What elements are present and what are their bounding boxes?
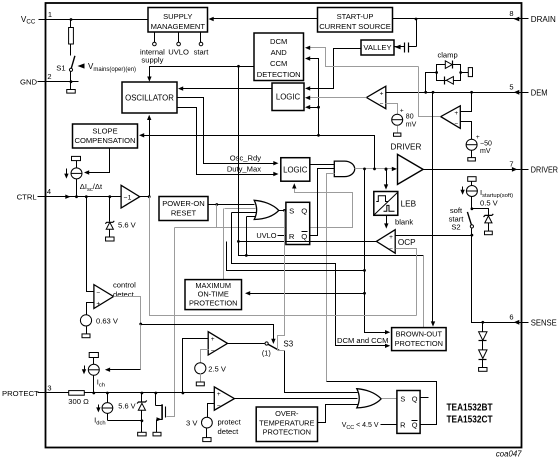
wire control detect plus to 0.63 V (87, 303, 94, 315)
svg-text:5: 5 (509, 83, 513, 92)
wire demag comparator output (419, 67, 441, 117)
wire latch nQ feedback to AND bus (327, 382, 437, 425)
block BROWN-OUT PROTECTION (392, 328, 447, 351)
wire OR input 3 (232, 212, 257, 214)
wire CTRL level bus (150, 197, 417, 316)
node control detect junction (139, 323, 142, 326)
comparator OCP U8 (376, 230, 395, 254)
svg-text:DEM: DEM (531, 88, 548, 97)
wire comparator minus to 2.5 V (201, 350, 209, 363)
svg-text:S1: S1 (56, 64, 65, 73)
svg-text:TEA1532CT: TEA1532CT (447, 414, 493, 425)
svg-text:MANAGEMENT: MANAGEMENT (151, 22, 206, 31)
node POR output junction (215, 203, 218, 206)
gate AND U4 (334, 161, 354, 177)
svg-text:0.63 V: 0.63 V (96, 316, 119, 325)
svg-text:Duty_Max: Duty_Max (227, 165, 261, 174)
svg-text:GND: GND (20, 78, 38, 87)
svg-text:S2: S2 (451, 223, 460, 232)
diode D2 clamp bottom (446, 77, 453, 85)
svg-text:5.6 V: 5.6 V (118, 220, 137, 229)
block VALLEY (361, 40, 394, 55)
capacitor C1 at DRAIN (395, 46, 405, 48)
svg-text:−1: −1 (124, 195, 132, 202)
svg-text:LEB: LEB (401, 199, 417, 208)
ground below GND node (70, 82, 72, 90)
wire OR output to latch S (382, 398, 397, 400)
wire OR input 4 vertical (246, 217, 248, 256)
node CTRL control-detect junction (85, 195, 88, 198)
svg-text:−: − (211, 348, 215, 355)
block OSCILLATOR (122, 82, 177, 113)
node DEM comparator junction (470, 91, 473, 94)
wire comparator output to S3 (228, 343, 265, 345)
node driver input LEB junction (385, 168, 388, 171)
wire Duty_Max from oscillator (177, 108, 277, 175)
wire DEM down to brown-out (432, 93, 434, 324)
svg-text:ON-TIME: ON-TIME (198, 289, 229, 298)
wire OR output to flip-flop S (279, 210, 286, 212)
wire -1 output to oscillator feedback node (140, 196, 150, 198)
node DEM brown-out junction (432, 91, 435, 94)
svg-text:LOGIC: LOGIC (276, 93, 301, 102)
svg-text:80: 80 (406, 113, 414, 120)
svg-text:S3: S3 (283, 339, 293, 348)
wire DEM line (386, 92, 522, 94)
wire demag comparator plus input from DEM (461, 93, 472, 112)
svg-text:DCM and CCM: DCM and CCM (337, 336, 388, 345)
node DCM-AND junction (363, 269, 366, 272)
current source Idch (107, 393, 109, 403)
svg-text:SUPPLY: SUPPLY (163, 12, 192, 21)
svg-text:SLOPE: SLOPE (92, 126, 117, 135)
wire LEB input from driver node (386, 170, 388, 185)
node soft start junction (471, 207, 474, 210)
svg-text:(1): (1) (262, 348, 271, 357)
flip-flop latch U13 (397, 391, 420, 434)
svg-text:PROTECT: PROTECT (2, 389, 39, 398)
wire protect comparator output to OR (235, 398, 358, 400)
voltage source 0.63 V (80, 315, 91, 326)
block DCM AND CCM DETECTION (254, 33, 304, 81)
wire VALLEY output to LOGIC (309, 49, 361, 89)
svg-text:−: − (96, 289, 100, 296)
svg-text:+: + (217, 391, 221, 398)
wire DCM detection input 2 (309, 59, 319, 136)
wire LOGIC to OSCILLATOR with arrow (182, 88, 273, 90)
comparator protect detect U11 (214, 387, 234, 410)
svg-text:7: 7 (509, 159, 513, 168)
svg-text:+: + (211, 336, 215, 343)
node PROTECT Idch junction (106, 392, 109, 395)
wire demag comparator minus input (461, 122, 472, 140)
wire DCM and CCM to brown-out (232, 213, 389, 346)
node DEM clamp junction (424, 91, 427, 94)
svg-text:+: + (389, 234, 393, 241)
ground below PROTECT zener (138, 432, 147, 436)
svg-text:RESET: RESET (171, 209, 197, 218)
svg-text:DRAIN: DRAIN (531, 15, 556, 24)
svg-text:Q: Q (412, 421, 418, 430)
comparator threshold U10 (208, 332, 227, 355)
wire capacitor to DRAIN rail (416, 19, 418, 47)
svg-text:DRIVER: DRIVER (391, 142, 422, 151)
svg-text:CURRENT SOURCE: CURRENT SOURCE (319, 22, 391, 31)
block START-UP CURRENT SOURCE (318, 8, 393, 33)
svg-text:−: − (380, 101, 384, 108)
transistor Q1 protect pull-down (155, 393, 157, 406)
wire S3 bus up to latch (278, 211, 285, 351)
svg-text:−: − (389, 246, 393, 253)
svg-text:300 Ω: 300 Ω (68, 397, 89, 406)
voltage source 2.5 V (195, 363, 206, 374)
node OCP DCM rail junction (237, 240, 240, 243)
node on driver sync line (317, 134, 320, 137)
svg-text:DRIVER: DRIVER (531, 166, 558, 175)
wire LEB to OCP blank (386, 216, 388, 224)
gate OR U12 (357, 389, 381, 408)
zener diode 5.6 V at CTRL (109, 197, 111, 222)
svg-text:+: + (454, 110, 458, 117)
svg-text:OCP: OCP (398, 238, 416, 247)
node PROTECT comparator junction (182, 392, 185, 395)
node SENSE diode junction (481, 321, 484, 324)
svg-text:2.5 V: 2.5 V (208, 364, 227, 373)
node clamp right (459, 71, 462, 74)
svg-text:UVLO: UVLO (168, 48, 189, 57)
comparator valley detect U2 (367, 86, 386, 109)
driver amplifier U7 (398, 154, 424, 184)
svg-text:CTRL: CTRL (17, 193, 38, 202)
resistor R1 on VCC (70, 20, 72, 28)
svg-text:SENSE: SENSE (531, 318, 557, 327)
wire protect comparator minus to 3 V (208, 404, 215, 418)
wire soft-start node to SENSE (472, 236, 522, 323)
svg-text:DCM: DCM (270, 37, 287, 46)
svg-text:−50: −50 (480, 140, 492, 147)
svg-text:3 V: 3 V (186, 419, 198, 428)
node PROTECT Ich junction (92, 392, 95, 395)
wire CTRL up to oscillator (149, 120, 151, 197)
block LEB (374, 192, 398, 216)
wire PROTECT to comparator plus (183, 339, 209, 393)
switch S2 soft start (467, 212, 471, 225)
svg-text:START-UP: START-UP (337, 12, 374, 21)
wire CTRL to control detect minus (87, 197, 94, 292)
svg-text:+: + (400, 108, 404, 115)
wire OR input 2 (225, 208, 256, 210)
ground below -50 mV source (471, 151, 473, 158)
wire latch Q stub (421, 397, 429, 399)
svg-text:CCM: CCM (270, 59, 287, 68)
svg-text:−: − (217, 403, 221, 410)
svg-text:S: S (289, 206, 294, 215)
svg-text:mV: mV (406, 121, 417, 128)
node GND junction (70, 80, 73, 83)
svg-text:4: 4 (47, 187, 51, 196)
pin 8 DRAIN (522, 18, 529, 20)
wire driver sync into slope compensation (142, 136, 375, 169)
wire CTRL line with direction arrow (46, 196, 122, 198)
svg-text:3: 3 (47, 383, 51, 392)
pin 2 GND (38, 81, 46, 83)
node LOGIC input 3 junction (317, 106, 320, 109)
wire DCM rail down to OCP line (238, 67, 240, 242)
svg-text:VALLEY: VALLEY (363, 43, 391, 52)
zener diode 0.5 V (472, 209, 489, 216)
wire control detect output (114, 297, 141, 325)
pin 6 SENSE (522, 322, 529, 324)
pin 4 CTRL (38, 196, 46, 198)
svg-text:−: − (454, 121, 458, 128)
node PROTECT zener junction (141, 392, 144, 395)
switch S3 (265, 342, 268, 345)
node CTRL zener junction (108, 195, 111, 198)
node AND output brown-out branch (363, 168, 366, 171)
svg-text:5.6 V: 5.6 V (118, 401, 135, 410)
terminal UVLO (178, 33, 180, 43)
node max-on-time junction (363, 292, 366, 295)
pin 3 PROTECT (38, 392, 46, 394)
svg-text:PROTECTION: PROTECTION (189, 298, 237, 307)
wire flip-flop nQ to AND input (310, 169, 335, 236)
block OVER-TEMPERATURE PROTECTION (256, 407, 317, 442)
wire latch bus to AND node (227, 242, 365, 271)
svg-text:TEA1532BT: TEA1532BT (447, 403, 493, 414)
svg-text:1: 1 (48, 10, 52, 19)
block LOGIC (272, 83, 304, 111)
voltage source 3 V (202, 417, 213, 428)
svg-text:0.5 V: 0.5 V (480, 199, 499, 208)
svg-text:AND: AND (271, 48, 288, 57)
comparator demagnetization U3 (441, 106, 461, 129)
pin 7 DRIVER (522, 169, 529, 171)
wire to LOGIC input 3 (309, 107, 319, 109)
svg-text:blank: blank (395, 217, 413, 226)
wire START-UP to SUPPLY MANAGEMENT with arrow (211, 18, 318, 20)
wire Idch to zener rail (108, 420, 142, 422)
pin 1 VCC (39, 19, 46, 21)
svg-text:OSCILLATOR: OSCILLATOR (125, 93, 174, 102)
block MAXIMUM ON-TIME PROTECTION (185, 280, 242, 310)
svg-text:Q: Q (412, 395, 418, 404)
wire to maximum on-time protection (247, 293, 365, 295)
svg-text:DETECTION: DETECTION (257, 70, 301, 79)
current source dIsc/dt (72, 156, 81, 160)
svg-text:R: R (400, 421, 405, 430)
ground below SENSE diodes (479, 368, 487, 372)
svg-text:+: + (380, 91, 384, 98)
zener diode 5.6 V at PROTECT (141, 393, 143, 403)
wire valley comparator minus input to 80 mV source (386, 104, 398, 115)
wire AND output to driver (355, 168, 395, 170)
current source Istartup(soft) (468, 177, 476, 182)
voltage source 80 mV (392, 114, 403, 125)
node S2 OCP junction (471, 234, 474, 237)
node CTRL dIsc junction (75, 195, 78, 198)
block SLOPE COMPENSATION (73, 124, 138, 148)
wire OCP output to OR and brown-out (239, 242, 424, 256)
label Vmains(oper)(en) with arrow (78, 63, 85, 68)
diode D1 clamp top (445, 61, 452, 69)
wire GND pin to S1 node (46, 81, 79, 83)
wire control detect to Ich (140, 325, 142, 370)
node S3 bus junction (283, 209, 286, 212)
wire valley comparator output to LOGIC (309, 97, 367, 99)
wire VCC rail to SUPPLY MANAGEMENT (46, 19, 149, 21)
svg-text:clamp: clamp (437, 51, 457, 60)
terminal start (200, 33, 202, 43)
svg-text:TEMPERATURE: TEMPERATURE (259, 418, 314, 427)
svg-text:Q: Q (301, 232, 307, 241)
diode D3 at SENSE (482, 323, 484, 332)
wire S3 bus stub (278, 350, 285, 352)
wire driver output to pin (424, 169, 521, 171)
wire POR to LOGIC bottom (217, 187, 353, 228)
node -1 output junction (148, 195, 151, 198)
svg-text:S: S (400, 395, 405, 404)
svg-text:COMPENSATION: COMPENSATION (74, 136, 135, 145)
flip-flop latch U6 (286, 202, 310, 244)
node zener rail junction (141, 419, 144, 422)
wire AND output down to brown-out (365, 169, 389, 333)
wire OR input 4 (247, 216, 256, 218)
amplifier -1 (121, 185, 140, 208)
pin 5 DEM (522, 92, 529, 94)
ground below transistor (153, 432, 161, 436)
wire POWER-ON RESET output (209, 204, 255, 206)
node PROTECT transistor junction (154, 392, 157, 395)
block POWER-ON RESET (159, 197, 208, 221)
wire comparator output to DCM detection arrow (308, 48, 419, 67)
wire OCP plus input to sense net (396, 235, 472, 237)
svg-text:PROTECTION: PROTECTION (263, 428, 311, 437)
current source Ich (89, 353, 98, 358)
voltage source -50 mV (466, 139, 477, 150)
node clamp left (435, 71, 438, 74)
svg-text:mV: mV (480, 148, 491, 155)
gate OR U5 (254, 200, 279, 219)
wire POR to protect transistor gate (175, 205, 217, 228)
wire OCP minus input to CTRL level (396, 249, 417, 316)
node DCM rail junction (237, 65, 240, 68)
svg-text:Q: Q (301, 206, 307, 215)
wire Osc_Rdy from oscillator (177, 98, 277, 164)
wire S3 to OR gate bus (285, 351, 358, 393)
svg-text:OVER-: OVER- (275, 409, 299, 418)
svg-text:detect: detect (218, 427, 240, 436)
terminal internal supply (154, 33, 156, 43)
svg-text:PROTECTION: PROTECTION (395, 339, 443, 348)
node VCC-resistor junction (70, 18, 73, 21)
wire gray bus to AND input 3 (327, 174, 335, 382)
node OCP OR branch (245, 254, 248, 257)
svg-text:protect: protect (218, 418, 242, 427)
svg-text:BROWN-OUT: BROWN-OUT (396, 330, 443, 339)
svg-text:6: 6 (509, 313, 513, 322)
switch S1 (71, 56, 75, 68)
wire OR input 2 to max-on-time (223, 209, 225, 280)
svg-text:supply: supply (141, 56, 163, 65)
svg-text:detect: detect (113, 290, 135, 299)
svg-text:start: start (194, 48, 210, 57)
svg-text:Osc_Rdy: Osc_Rdy (230, 154, 261, 163)
svg-text:R: R (289, 232, 295, 241)
diode D4 at SENSE (479, 350, 487, 359)
svg-text:8: 8 (509, 9, 513, 18)
node DRAIN-capacitor junction (415, 18, 418, 21)
svg-text:POWER-ON: POWER-ON (162, 199, 205, 208)
svg-text:2: 2 (47, 72, 51, 81)
resistor 300 ohm (46, 392, 69, 394)
wire over-temperature output to OR (318, 405, 358, 423)
comparator control detect U9 (94, 285, 114, 309)
svg-text:control: control (113, 281, 136, 290)
wire START-UP to DRAIN pin (393, 18, 522, 20)
wire control detect to S3 (141, 325, 274, 340)
block SUPPLY MANAGEMENT (148, 8, 208, 33)
svg-text:coa047: coa047 (496, 449, 522, 458)
wire DCM box to oscillator (internal supply rail) (150, 67, 255, 78)
node AND output LEB branch (385, 168, 388, 171)
node AND output slope branch (373, 168, 376, 171)
wire clamp left leg to DEM (426, 73, 437, 93)
wire slope compensation to dI/dt source (87, 149, 110, 173)
svg-text:+: + (96, 301, 100, 308)
supply terminal of clamp (461, 72, 469, 74)
ground below 80 mV source (397, 126, 399, 133)
block LOGIC 2 (281, 158, 310, 182)
svg-text:UVLO: UVLO (256, 231, 276, 240)
svg-text:LOGIC: LOGIC (283, 166, 308, 175)
wire LOGIC2 output to AND gate (310, 164, 335, 166)
